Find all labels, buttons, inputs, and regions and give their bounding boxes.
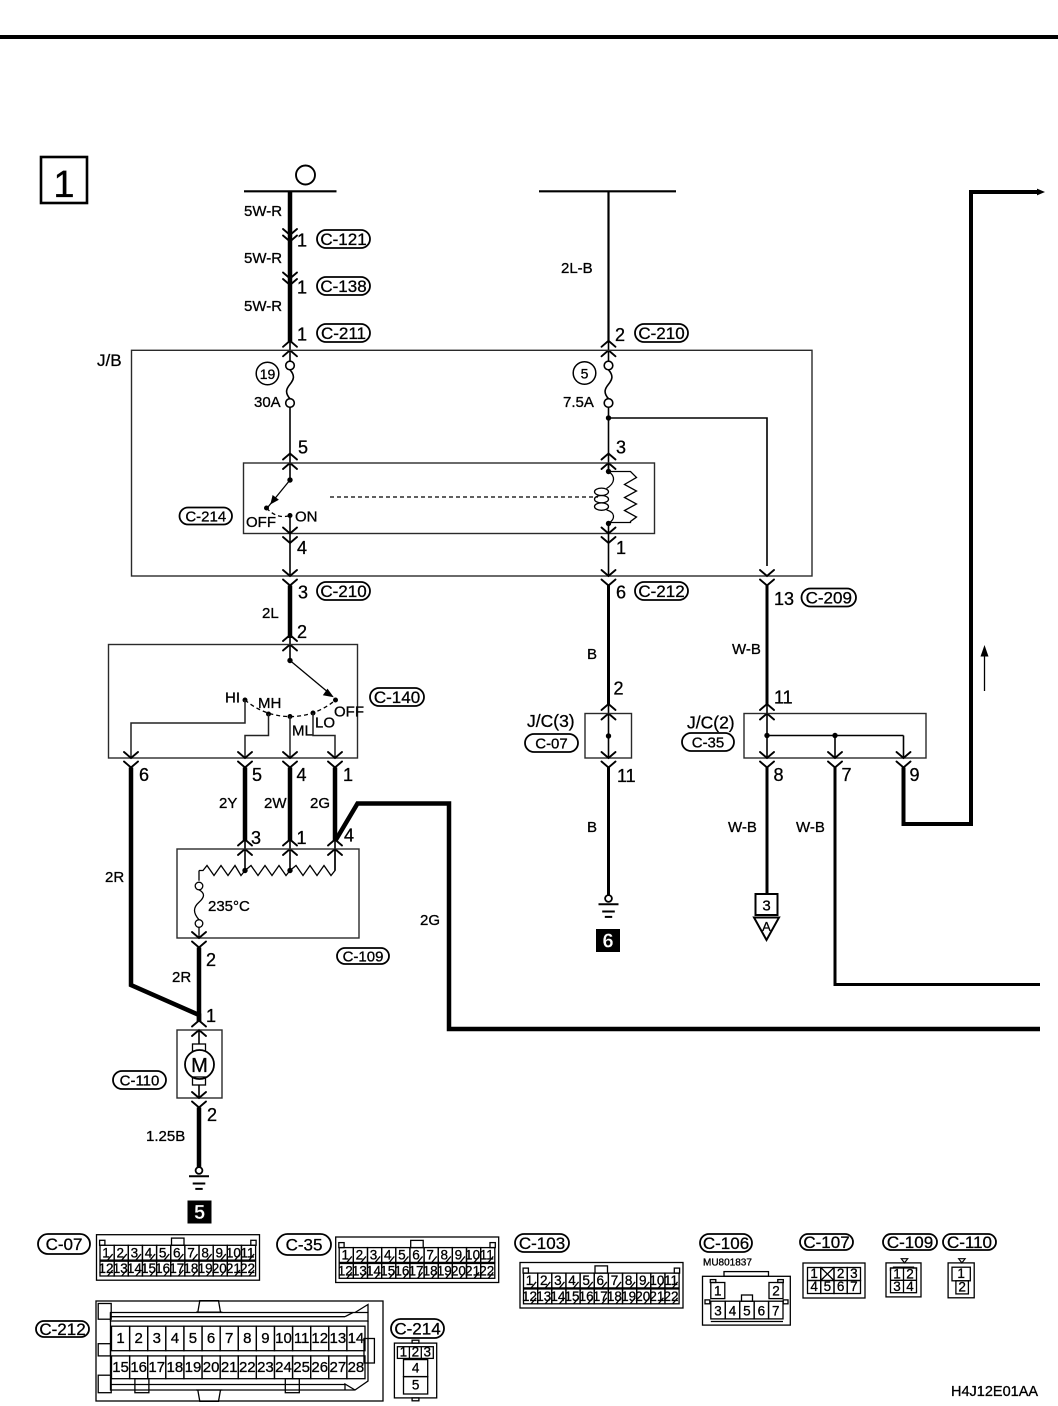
svg-text:2G: 2G [310, 795, 330, 812]
svg-text:26: 26 [311, 1359, 328, 1376]
relay box C-214 outline [244, 463, 655, 534]
svg-text:W-B: W-B [728, 819, 757, 836]
svg-text:C-110: C-110 [120, 1072, 160, 1089]
C-140 entry chevrons [283, 635, 297, 651]
svg-text:2: 2 [206, 950, 216, 970]
svg-text:C-110: C-110 [947, 1233, 992, 1252]
svg-text:W-B: W-B [732, 641, 761, 658]
svg-text:1: 1 [297, 278, 307, 298]
J/B exit chevrons (pin 3 C-210) [283, 570, 297, 586]
svg-text:MH: MH [258, 695, 281, 712]
connector C-210 entry chevrons into J/B [602, 341, 616, 357]
svg-text:19: 19 [260, 366, 276, 382]
ground marker 5 (black square) [188, 1201, 212, 1225]
svg-text:J/C(3): J/C(3) [527, 711, 575, 731]
wire 2L-B [607, 191, 609, 362]
blower resistor C-109 outline [177, 849, 359, 938]
svg-text:3: 3 [762, 898, 770, 915]
connector C-109 pinout [886, 1259, 921, 1297]
connector C-214 label (panel) [391, 1319, 444, 1338]
J/C(2) exit chevrons pins 8,7,9 [760, 752, 774, 768]
svg-text:1: 1 [53, 164, 74, 206]
svg-text:C-214: C-214 [185, 508, 226, 525]
connector C-211 label [317, 324, 370, 342]
svg-text:8: 8 [774, 765, 784, 785]
svg-text:2: 2 [614, 679, 624, 699]
blower switch C-140 outline [109, 645, 358, 759]
right feed bus bar [539, 190, 676, 192]
connector C-110 pinout [948, 1259, 974, 1298]
connector C-121 in-line marker [283, 229, 297, 242]
svg-text:C-121: C-121 [320, 230, 366, 249]
wire B from C-212 pin 6 [607, 586, 610, 714]
connector C-106 pinout [703, 1272, 791, 1326]
svg-text:6: 6 [207, 1330, 215, 1347]
connector C-138 in-line marker [283, 273, 297, 286]
mechanical link dashed line [330, 496, 598, 498]
svg-text:C-212: C-212 [39, 1320, 85, 1339]
C-109 exit chevrons (pin 2) [192, 932, 206, 948]
svg-text:6: 6 [139, 765, 149, 785]
svg-text:J/C(2): J/C(2) [687, 713, 735, 733]
wire 2R from pin 6 [131, 768, 199, 1022]
svg-text:H4J12E01AA: H4J12E01AA [951, 1384, 1038, 1400]
connector C-106 label (panel) [700, 1234, 752, 1252]
connector C-211 entry chevrons into J/B [283, 341, 297, 357]
svg-text:11: 11 [294, 1330, 310, 1347]
svg-text:1: 1 [297, 828, 307, 848]
svg-text:1: 1 [116, 1330, 124, 1347]
connector C-110 label (panel) [943, 1234, 996, 1250]
svg-text:4: 4 [906, 1279, 914, 1294]
svg-text:C-211: C-211 [321, 324, 366, 343]
svg-text:30A: 30A [254, 394, 281, 411]
svg-text:21: 21 [221, 1359, 238, 1376]
blower motor C-110 [177, 1030, 222, 1098]
connector C-109 label [337, 948, 389, 964]
svg-text:2: 2 [772, 1284, 780, 1299]
blower switch wiper [287, 658, 334, 697]
connector C-107 label (panel) [800, 1234, 853, 1250]
fuse 5 (7.5A) [563, 361, 613, 411]
svg-text:2: 2 [412, 1344, 420, 1359]
LO contact wire to pin 1 [313, 713, 335, 758]
svg-text:6: 6 [758, 1304, 766, 1319]
svg-text:C-35: C-35 [286, 1236, 323, 1255]
ground symbol (motor) [189, 1167, 209, 1189]
wire junction to C-209 branch [609, 418, 768, 566]
svg-text:2: 2 [958, 1279, 966, 1294]
J/C(3) exit chevrons (pin 11) [602, 752, 616, 768]
svg-text:2L-B: 2L-B [561, 260, 593, 277]
svg-text:C-209: C-209 [806, 589, 852, 608]
svg-text:J/B: J/B [97, 351, 122, 370]
svg-text:B: B [587, 646, 597, 663]
relay box exit chevrons (pin 1) [602, 528, 616, 544]
ground marker 6 (black square) [596, 929, 620, 953]
battery bus bar [244, 190, 337, 192]
svg-text:19: 19 [185, 1359, 202, 1376]
svg-text:MU801837: MU801837 [703, 1258, 752, 1269]
svg-text:C-107: C-107 [803, 1233, 849, 1252]
svg-text:W-B: W-B [796, 819, 825, 836]
svg-text:18: 18 [167, 1359, 184, 1376]
svg-text:2Y: 2Y [219, 795, 237, 812]
svg-text:3: 3 [616, 438, 626, 458]
svg-text:1.25B: 1.25B [146, 1128, 185, 1145]
connector C-109 label (panel) [883, 1234, 937, 1250]
svg-text:5: 5 [252, 765, 262, 785]
svg-text:7: 7 [850, 1279, 858, 1294]
svg-text:C-106: C-106 [703, 1234, 749, 1253]
wire fuse19 to relay switch [289, 407, 291, 480]
svg-text:1: 1 [343, 765, 353, 785]
svg-text:22: 22 [239, 1359, 256, 1376]
svg-text:11: 11 [617, 766, 636, 786]
battery feed terminal circle [296, 166, 315, 185]
relay coil output wire (pin 1) [608, 524, 610, 577]
svg-text:1: 1 [616, 538, 626, 558]
svg-text:5: 5 [194, 1202, 205, 1224]
connector C-214 pinout [394, 1340, 436, 1401]
svg-text:5W-R: 5W-R [244, 250, 282, 267]
connector C-35 label [682, 733, 734, 751]
relay box entry chevrons (pin 5) [283, 454, 297, 470]
C-140 exit chevrons pins 6,5,4,1 [124, 752, 138, 768]
svg-text:5: 5 [189, 1330, 197, 1347]
svg-text:2: 2 [207, 1105, 217, 1125]
svg-text:ON: ON [295, 509, 318, 526]
svg-text:1: 1 [400, 1344, 408, 1359]
svg-text:6: 6 [616, 583, 626, 603]
connector C-35 pinout [336, 1237, 499, 1283]
svg-text:3: 3 [893, 1279, 901, 1294]
motor entry chevrons [192, 1021, 206, 1037]
svg-text:1: 1 [714, 1284, 722, 1299]
connector C-214 label [180, 508, 233, 525]
svg-text:11: 11 [774, 688, 793, 708]
svg-text:2R: 2R [105, 869, 124, 886]
svg-text:3: 3 [298, 583, 308, 603]
svg-text:1: 1 [297, 325, 307, 345]
wire 1.25B motor to ground [197, 1108, 202, 1168]
svg-text:2R: 2R [172, 969, 191, 986]
svg-text:20: 20 [203, 1359, 220, 1376]
svg-text:5: 5 [298, 438, 308, 458]
connector C-121 label [317, 230, 370, 248]
svg-text:C-212: C-212 [638, 582, 684, 601]
thermal fuse 235C [195, 871, 251, 939]
J/B exit chevrons (pin 13 C-209) [760, 570, 774, 586]
svg-text:7: 7 [225, 1330, 233, 1347]
svg-text:7: 7 [842, 765, 852, 785]
svg-text:1: 1 [297, 231, 307, 251]
svg-text:LO: LO [315, 715, 335, 732]
page top rule [0, 35, 1058, 39]
relay coil with resistor [595, 463, 637, 526]
wire W-B pin 9 to off-page top right [904, 192, 1039, 824]
relay box entry chevrons (pin 3) [602, 454, 616, 470]
svg-text:C-210: C-210 [638, 324, 684, 343]
junction connector J/C(3) box [585, 714, 632, 759]
connector C-212 pinout [96, 1301, 383, 1402]
svg-text:C-35: C-35 [692, 734, 725, 751]
svg-text:10: 10 [275, 1330, 292, 1347]
wire 5W-R main feed [288, 191, 293, 362]
svg-text:C-07: C-07 [535, 735, 568, 752]
svg-text:4: 4 [412, 1361, 420, 1376]
svg-text:2L: 2L [262, 605, 279, 622]
svg-text:C-103: C-103 [519, 1234, 565, 1253]
wire 2G from pin 1 [333, 768, 338, 871]
section marker box 1 [41, 157, 87, 206]
connector C-110 label (motor) [113, 1071, 166, 1089]
ML contact wire to pin 4 [289, 717, 291, 759]
resistor element R2 [245, 866, 290, 876]
svg-text:4: 4 [344, 826, 354, 846]
svg-text:4: 4 [729, 1304, 737, 1319]
wire W-B from C-209 pin 13 [766, 586, 769, 714]
connector C-07 label [525, 734, 578, 752]
flow direction arrow [981, 645, 989, 691]
svg-text:5W-R: 5W-R [244, 298, 282, 315]
off-page wire tip [1037, 189, 1045, 196]
svg-text:C-214: C-214 [394, 1320, 440, 1339]
junction node inside J/C(3) [606, 733, 611, 738]
connector C-212 label (panel) [36, 1321, 89, 1337]
svg-text:2: 2 [134, 1330, 142, 1347]
svg-text:4: 4 [810, 1279, 818, 1294]
svg-text:B: B [587, 819, 597, 836]
junction block J/B outline [132, 350, 813, 576]
connector C-07 pinout [97, 1235, 260, 1281]
svg-text:7.5A: 7.5A [563, 394, 594, 411]
ground symbol (J/C3) [599, 895, 619, 917]
wire W-B pin 8 to off-page arrow [766, 768, 769, 895]
svg-text:2: 2 [297, 622, 307, 642]
svg-text:9: 9 [261, 1330, 269, 1347]
svg-text:16: 16 [130, 1359, 147, 1376]
svg-text:5W-R: 5W-R [244, 203, 282, 220]
wire 2Y from pin 5 [243, 768, 248, 871]
svg-text:C-210: C-210 [320, 582, 366, 601]
thick 2G branch wire to off-page right [336, 804, 1041, 1030]
svg-text:27: 27 [329, 1359, 346, 1376]
connector C-138 label [317, 277, 370, 295]
svg-text:5: 5 [412, 1378, 420, 1393]
relay box exit chevrons (pin 4) [283, 528, 297, 544]
junction dots on resistor chain [242, 868, 247, 873]
svg-text:8: 8 [243, 1330, 251, 1347]
svg-text:4: 4 [297, 538, 307, 558]
svg-text:17: 17 [148, 1359, 165, 1376]
svg-text:HI: HI [225, 690, 240, 707]
svg-text:5: 5 [824, 1279, 832, 1294]
svg-text:3: 3 [153, 1330, 161, 1347]
resistor element R1 [199, 866, 245, 876]
svg-text:13: 13 [329, 1330, 346, 1347]
J/B exit chevrons (pin 6 C-212) [602, 570, 616, 586]
wire B to ground [607, 768, 610, 896]
svg-text:24: 24 [275, 1359, 292, 1376]
wire 2R resistor to motor [197, 948, 202, 1022]
svg-text:13: 13 [774, 589, 794, 609]
fuse 19 (30A) [254, 361, 294, 411]
svg-text:C-109: C-109 [887, 1233, 933, 1252]
switch contacts HI MH ML LO OFF [225, 690, 364, 740]
svg-text:C-140: C-140 [374, 688, 420, 707]
svg-text:6: 6 [837, 1279, 845, 1294]
relay switch (blower relay contacts) [246, 477, 318, 531]
off-page arrow 3/A [754, 894, 779, 940]
svg-text:9: 9 [910, 765, 920, 785]
svg-text:C-109: C-109 [343, 948, 384, 965]
wire W-B pin 7 to off-page right [835, 768, 1040, 985]
J/C(3) entry chevrons [602, 704, 616, 720]
svg-text:4: 4 [297, 765, 307, 785]
svg-text:23: 23 [257, 1359, 274, 1376]
svg-text:14: 14 [348, 1330, 365, 1347]
svg-text:5: 5 [743, 1304, 751, 1319]
svg-text:6: 6 [602, 931, 613, 953]
C-109 entry chevrons [238, 840, 252, 856]
HI contact wire to pin 6 [131, 700, 245, 758]
connector C-210 label (top) [635, 324, 688, 342]
connector C-140 label [370, 688, 424, 706]
MH contact wire to pin 5 [245, 714, 269, 758]
svg-text:25: 25 [293, 1359, 310, 1376]
svg-text:A: A [762, 919, 771, 934]
connector C-103 label (panel) [515, 1234, 569, 1252]
svg-text:235°C: 235°C [208, 898, 250, 915]
wire 2W from pin 4 [288, 768, 293, 871]
wire 2L (J/B to blower switch) [288, 586, 293, 661]
connector C-07 label (panel) [38, 1234, 90, 1254]
wire fuse5 to relay coil [608, 407, 610, 472]
svg-text:OFF: OFF [246, 514, 276, 531]
svg-text:M: M [191, 1055, 208, 1077]
svg-text:12: 12 [311, 1330, 328, 1347]
connector C-103 pinout [520, 1263, 683, 1309]
svg-text:28: 28 [348, 1359, 365, 1376]
svg-text:1: 1 [206, 1006, 216, 1026]
svg-text:5: 5 [581, 365, 589, 381]
junction connector J/C(2) box [744, 714, 926, 759]
svg-text:OFF: OFF [334, 704, 364, 721]
connector C-107 pinout [803, 1263, 865, 1298]
relay switch output wire (pin 4) [289, 516, 291, 577]
svg-text:ML: ML [292, 723, 313, 740]
svg-text:2G: 2G [420, 912, 440, 929]
J/C(2) internal bus [764, 714, 903, 759]
junction node at fuse5 output [606, 415, 611, 420]
motor exit chevrons (pin 2) [192, 1092, 206, 1108]
svg-text:15: 15 [112, 1359, 129, 1376]
svg-text:4: 4 [171, 1330, 179, 1347]
svg-text:C-138: C-138 [320, 277, 366, 296]
connector C-35 label (panel) [277, 1234, 331, 1255]
svg-text:7: 7 [772, 1304, 780, 1319]
svg-text:3: 3 [714, 1304, 722, 1319]
svg-text:2W: 2W [264, 795, 287, 812]
svg-text:3: 3 [424, 1344, 432, 1359]
svg-text:2: 2 [615, 325, 625, 345]
J/C(2) entry chevrons [760, 704, 774, 720]
resistor element R3 [290, 849, 335, 876]
svg-text:C-07: C-07 [46, 1235, 83, 1254]
